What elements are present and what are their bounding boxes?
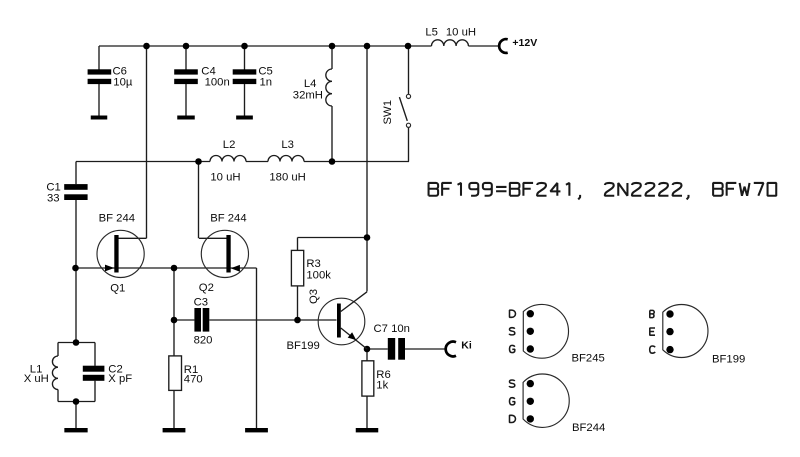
svg-text:BF199: BF199 (287, 340, 320, 352)
svg-text:1n: 1n (260, 77, 273, 89)
svg-text:180 uH: 180 uH (269, 172, 305, 184)
svg-text:BF 244: BF 244 (99, 212, 135, 224)
svg-text:SW1: SW1 (382, 100, 394, 124)
svg-text:C7 10n: C7 10n (374, 323, 410, 335)
svg-text:+12V: +12V (512, 37, 537, 49)
svg-text:Q2: Q2 (199, 282, 214, 294)
svg-text:10 uH: 10 uH (210, 172, 240, 184)
svg-text:BF 244: BF 244 (210, 212, 246, 224)
svg-text:L2: L2 (223, 139, 236, 151)
svg-text:Q3: Q3 (308, 289, 320, 304)
svg-text:32mH: 32mH (293, 90, 323, 102)
svg-text:10µ: 10µ (113, 77, 133, 89)
svg-text:33: 33 (47, 192, 60, 204)
svg-text:L5: L5 (425, 26, 438, 38)
svg-text:Q1: Q1 (110, 282, 125, 294)
svg-text:BF199: BF199 (712, 353, 745, 365)
svg-text:BF244: BF244 (572, 422, 605, 434)
svg-text:R3: R3 (306, 258, 320, 270)
svg-text:820: 820 (194, 334, 213, 346)
svg-text:L3: L3 (281, 139, 294, 151)
svg-text:100k: 100k (306, 269, 331, 281)
svg-text:C3: C3 (194, 297, 208, 309)
svg-text:100n: 100n (205, 77, 230, 89)
svg-text:BF245: BF245 (572, 353, 605, 365)
svg-text:1k: 1k (376, 380, 388, 392)
svg-text:L4: L4 (304, 78, 317, 90)
svg-text:X pF: X pF (108, 373, 132, 385)
svg-text:X uH: X uH (24, 373, 49, 385)
svg-text:470: 470 (184, 373, 203, 385)
svg-text:10 uH: 10 uH (446, 26, 476, 38)
svg-text:Ki: Ki (461, 340, 472, 352)
